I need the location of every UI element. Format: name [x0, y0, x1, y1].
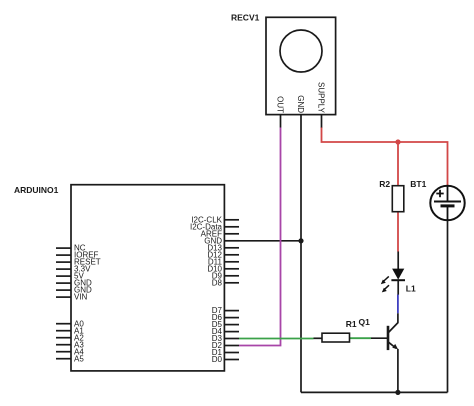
- svg-text:VIN: VIN: [74, 293, 88, 302]
- arduino pin 3.3V: [56, 265, 91, 274]
- arduino pin D6: [212, 313, 239, 322]
- LED L1 emission arrow 1: [381, 276, 389, 284]
- arduino pin D2: [212, 341, 239, 350]
- wire: arduino GND to RECV1 GND line (black): [239, 240, 301, 242]
- wire: collector to LED cathode (blue): [397, 295, 399, 314]
- ground rail (bottom wire): [301, 391, 448, 393]
- resistor R1: [314, 333, 350, 342]
- arduino pin D7: [212, 306, 239, 315]
- arduino pin I2C-Data: [190, 222, 239, 231]
- svg-text:ARDUINO1: ARDUINO1: [14, 185, 59, 195]
- svg-text:R1: R1: [346, 319, 357, 329]
- arduino pin A3: [56, 340, 84, 349]
- svg-text:Q1: Q1: [359, 317, 371, 327]
- svg-text:GND: GND: [296, 95, 305, 113]
- arduino pin RESET: [56, 258, 101, 267]
- wire red node down to R2: [397, 142, 399, 186]
- arduino pin VIN: [56, 293, 88, 302]
- junction: GND node: [298, 238, 303, 243]
- arduino pin D4: [212, 327, 239, 336]
- svg-text:SUPPLY: SUPPLY: [317, 82, 326, 114]
- arduino pin A4: [56, 347, 84, 356]
- wire R1 to Q1 base (green): [350, 337, 371, 339]
- arduino pin A1: [56, 326, 84, 335]
- arduino pin NC: [56, 244, 86, 253]
- battery BT1: [430, 186, 464, 220]
- arduino pin I2C-CLK: [191, 215, 239, 224]
- resistor R2: [392, 186, 404, 212]
- arduino pin A0: [56, 319, 84, 328]
- RECV1 pin OUT: [276, 96, 285, 127]
- arduino pin 5V: [56, 272, 84, 281]
- svg-text:D8: D8: [212, 278, 223, 287]
- LED L1: [391, 251, 405, 294]
- wire D3 to R1 (green): [239, 338, 314, 340]
- arduino pin GND left b: [56, 286, 92, 295]
- svg-text:OUT: OUT: [276, 96, 285, 113]
- arduino pin D9: [212, 271, 239, 280]
- wire: battery negative to rail (black): [447, 220, 449, 392]
- arduino pin A2: [56, 333, 84, 342]
- junction: emitter on rail: [395, 390, 400, 395]
- wire: Q1 collector up (black): [397, 313, 399, 323]
- wire D2 to RECV1 OUT (magenta): [239, 128, 281, 346]
- svg-text:A5: A5: [74, 354, 84, 363]
- arduino ARDUINO1 body: [71, 185, 224, 371]
- wire SUPPLY to R2/BT1 (red): [322, 128, 448, 186]
- junction: red node: [395, 139, 400, 144]
- arduino pin AREF: [201, 229, 239, 238]
- IR receiver RECV1 body: [266, 17, 336, 114]
- arduino pin D12: [207, 250, 239, 259]
- arduino pin D8: [212, 278, 239, 287]
- arduino pin D1: [212, 348, 239, 357]
- RECV1 pin SUPPLY: [317, 82, 326, 128]
- svg-text:L1: L1: [406, 284, 416, 294]
- arduino pin D11: [208, 257, 239, 266]
- arduino pin D10: [207, 264, 239, 273]
- wire: RECV1 GND down to ground rail (black): [300, 241, 302, 393]
- svg-text:R2: R2: [379, 179, 390, 189]
- LED L1 emission arrow 2: [382, 285, 389, 292]
- arduino pin GND left a: [56, 279, 92, 288]
- svg-text:RECV1: RECV1: [231, 13, 260, 23]
- arduino pin D0: [212, 355, 239, 364]
- wire: Q1 emitter down to rail (black): [397, 349, 399, 393]
- svg-text:BT1: BT1: [410, 179, 426, 189]
- svg-text:D0: D0: [212, 355, 223, 364]
- transistor Q1: [371, 322, 398, 350]
- wire R2 to LED anode (red): [397, 212, 399, 252]
- arduino pin GND right: [204, 236, 239, 245]
- arduino pin D13: [207, 243, 239, 252]
- arduino pin IOREF: [56, 251, 99, 260]
- arduino pin D5: [212, 320, 239, 329]
- RECV1 pin GND: [296, 95, 305, 241]
- arduino pin A5: [56, 354, 84, 363]
- arduino pin D3: [212, 334, 239, 343]
